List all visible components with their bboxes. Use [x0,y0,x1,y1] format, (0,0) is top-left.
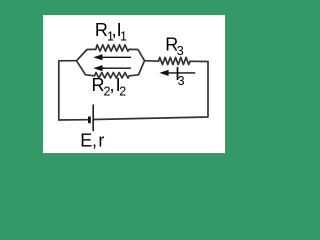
label R3 [165,35,184,59]
label R2,I2 [92,75,127,98]
label E,r [80,131,104,151]
white panel [43,15,225,153]
current arrow I3 [159,70,195,76]
bottom branch left diagonal and lead [77,61,95,76]
resistor R2 [95,73,130,79]
svg-text:r: r [98,131,104,151]
wire battery to bottom right corner and right vertical up [93,61,208,119]
svg-text:3: 3 [178,74,185,88]
svg-text:E: E [80,131,92,151]
battery short thick plate [88,117,91,124]
battery E,r [89,105,93,132]
battery long thin plate [92,105,94,132]
svg-text:2: 2 [119,84,126,98]
resistor R3 [159,57,191,64]
green background [0,0,272,180]
svg-text:,: , [92,131,97,151]
wire left vertical [59,61,77,120]
resistor R1 [96,45,129,51]
label R1,I1 [95,20,127,43]
bottom branch right lead and diagonal [129,61,144,76]
top branch right lead and diagonal [129,49,144,60]
current arrow I1 [93,54,131,60]
wire bottom left to battery [59,119,89,121]
svg-text:,: , [110,75,115,95]
current arrow I2 [93,65,131,71]
svg-text:1: 1 [120,29,127,43]
svg-text:R: R [95,20,108,40]
wire node to R3 [145,60,159,63]
svg-text:3: 3 [177,44,184,58]
label I3 [175,64,185,88]
top branch left diagonal and lead [77,49,96,60]
